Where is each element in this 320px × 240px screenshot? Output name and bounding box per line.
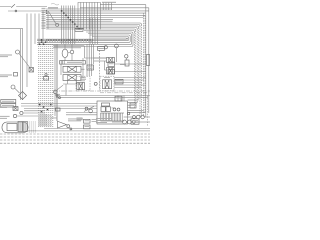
dashed box assembly B	[100, 76, 114, 91]
bus cross links	[128, 109, 144, 111]
br junction box	[97, 101, 128, 124]
bus top connector	[44, 77, 49, 81]
label TO ENGINE	[48, 7, 58, 8]
label water temp	[0, 55, 12, 56]
horn circle small	[70, 128, 72, 130]
sensor circle B1	[115, 44, 119, 48]
divider2	[100, 92, 150, 94]
stub B1	[115, 48, 117, 62]
bus junction dots low	[39, 104, 41, 106]
br feed drops	[117, 96, 119, 102]
br lower wires	[66, 112, 97, 114]
jb box2	[84, 125, 91, 129]
mini box mid	[87, 65, 94, 70]
jb label2	[92, 118, 97, 121]
valve riser	[60, 64, 62, 75]
band junction dots	[39, 44, 41, 46]
valve V4	[107, 68, 115, 75]
rm wires	[114, 77, 146, 79]
alt terminal	[70, 50, 74, 54]
dashed drop	[98, 50, 100, 90]
solid bus edge	[54, 44, 56, 116]
battery cell hatch A	[18, 122, 23, 132]
divider circle	[53, 90, 57, 94]
low rail 1	[44, 128, 150, 130]
label horn	[68, 118, 83, 121]
diag wire	[19, 54, 31, 69]
ladder term box	[75, 28, 83, 31]
gauge diamond	[19, 92, 27, 100]
limit box	[98, 47, 105, 51]
left descenders	[26, 14, 28, 88]
junction dots	[61, 10, 63, 12]
edge ladder box	[146, 55, 150, 66]
ground bus dashed	[0, 133, 150, 135]
terminal circle	[56, 24, 59, 27]
wire second feed	[8, 10, 46, 12]
left stub wire	[0, 28, 23, 30]
rb circles	[123, 120, 127, 124]
jb box1	[84, 119, 91, 123]
mid connector wires	[53, 45, 84, 47]
switch gap	[11, 4, 16, 8]
center vertical	[56, 44, 58, 121]
mid-left wires	[21, 103, 97, 105]
valve stubs	[67, 81, 69, 85]
relay on center line	[56, 108, 61, 111]
horn circle	[67, 125, 70, 128]
divider dash-dot	[54, 90, 150, 92]
bus vertical grid	[61, 6, 63, 45]
rb wires	[112, 121, 123, 123]
key circle	[20, 111, 23, 114]
br circles	[133, 116, 136, 119]
label R	[120, 63, 126, 66]
panel box 2	[1, 104, 16, 107]
box R1	[108, 62, 115, 67]
squiggle cloud	[51, 3, 59, 5]
stub B2	[125, 58, 127, 60]
riser x845	[84, 46, 86, 58]
vert pair left	[20, 29, 22, 100]
br top box	[115, 96, 122, 101]
cr wires	[94, 57, 107, 59]
solenoid valve V1	[63, 66, 81, 72]
rb box	[131, 119, 139, 124]
switch S1	[47, 11, 49, 29]
solenoid valve V2	[63, 75, 81, 81]
label oil press	[0, 75, 12, 76]
label top horn	[51, 117, 58, 120]
wire diag2	[15, 88, 20, 93]
limit ellipse	[104, 46, 107, 49]
low rail 2	[28, 130, 150, 132]
panel box 1	[1, 100, 16, 103]
wire start circles	[56, 95, 58, 97]
connector strip	[100, 113, 102, 121]
dotted bus columns	[38, 44, 40, 128]
ladder wires	[46, 8, 112, 10]
tiny box left	[14, 73, 18, 77]
dotted column block BL	[28, 122, 30, 134]
sensor circle B2	[125, 55, 128, 58]
gauge circle	[11, 85, 15, 89]
diag wire low	[84, 106, 94, 111]
engine cluster	[101, 107, 105, 112]
br dashed edge	[147, 96, 149, 127]
valve V3	[107, 58, 115, 63]
battery oval	[2, 122, 28, 133]
battery cell 1	[7, 124, 17, 131]
note block	[96, 117, 112, 120]
alt stub	[64, 44, 66, 49]
strip circles	[113, 108, 116, 111]
ladder turn downs	[143, 13, 145, 117]
wire circle right	[89, 109, 93, 113]
lamp circle	[13, 114, 16, 117]
rm box	[115, 79, 123, 84]
right wire bundle corner	[46, 23, 141, 25]
mid verticals	[89, 18, 91, 44]
mid circle	[94, 82, 97, 85]
terminal ladder	[38, 115, 52, 117]
jb labels	[77, 117, 83, 120]
label box TR	[102, 2, 116, 3]
wire top feed	[0, 6, 47, 8]
splice circle row	[46, 39, 48, 41]
box wires right	[115, 63, 147, 65]
horn triangle	[58, 121, 67, 128]
label keyswitch	[0, 115, 10, 118]
sender circle	[16, 50, 20, 54]
breaker box X2	[13, 107, 18, 111]
battery cell hatch B	[23, 122, 28, 132]
box R3	[125, 60, 129, 66]
upper right rails	[100, 4, 146, 6]
long wires low	[56, 95, 150, 97]
dashed box assembly A	[76, 76, 90, 91]
br right box	[130, 103, 136, 108]
box R2	[108, 70, 115, 74]
breaker box X	[29, 68, 34, 73]
terminal strip	[60, 61, 86, 65]
alternator ellipse	[62, 49, 68, 57]
right edge bus	[145, 5, 147, 117]
br wire links	[124, 116, 133, 118]
